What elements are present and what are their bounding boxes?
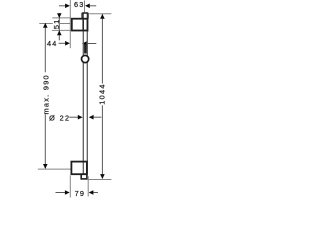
dim 79	[56, 175, 98, 197]
rail bar lines	[82, 14, 84, 174]
svg-text:1044: 1044	[98, 83, 107, 104]
wire: wall extension line	[69, 0, 71, 48]
dim diameter 22	[49, 114, 101, 123]
bottom bracket	[71, 162, 87, 175]
wire: 63 right extension line (bar axis)	[84, 1, 86, 13]
dim 63 top	[59, 0, 96, 9]
top bracket	[72, 19, 88, 31]
dim 44	[47, 39, 96, 48]
shower rail dimensional drawing 149x200	[0, 0, 149, 200]
bar thick segment inside bracket	[82, 19, 84, 30]
bottom foot	[81, 174, 87, 179]
svg-text:44: 44	[47, 39, 58, 48]
svg-text:Ø 22: Ø 22	[49, 114, 70, 123]
svg-text:63: 63	[74, 0, 85, 9]
dim 51	[52, 13, 71, 40]
slider dark stem	[84, 44, 87, 53]
svg-text:79: 79	[75, 189, 86, 198]
dim max 990	[38, 23, 71, 169]
svg-text:max. 990: max. 990	[41, 74, 50, 114]
slider circle	[82, 55, 89, 62]
top cap	[82, 13, 88, 19]
dim 1044	[88, 14, 111, 180]
